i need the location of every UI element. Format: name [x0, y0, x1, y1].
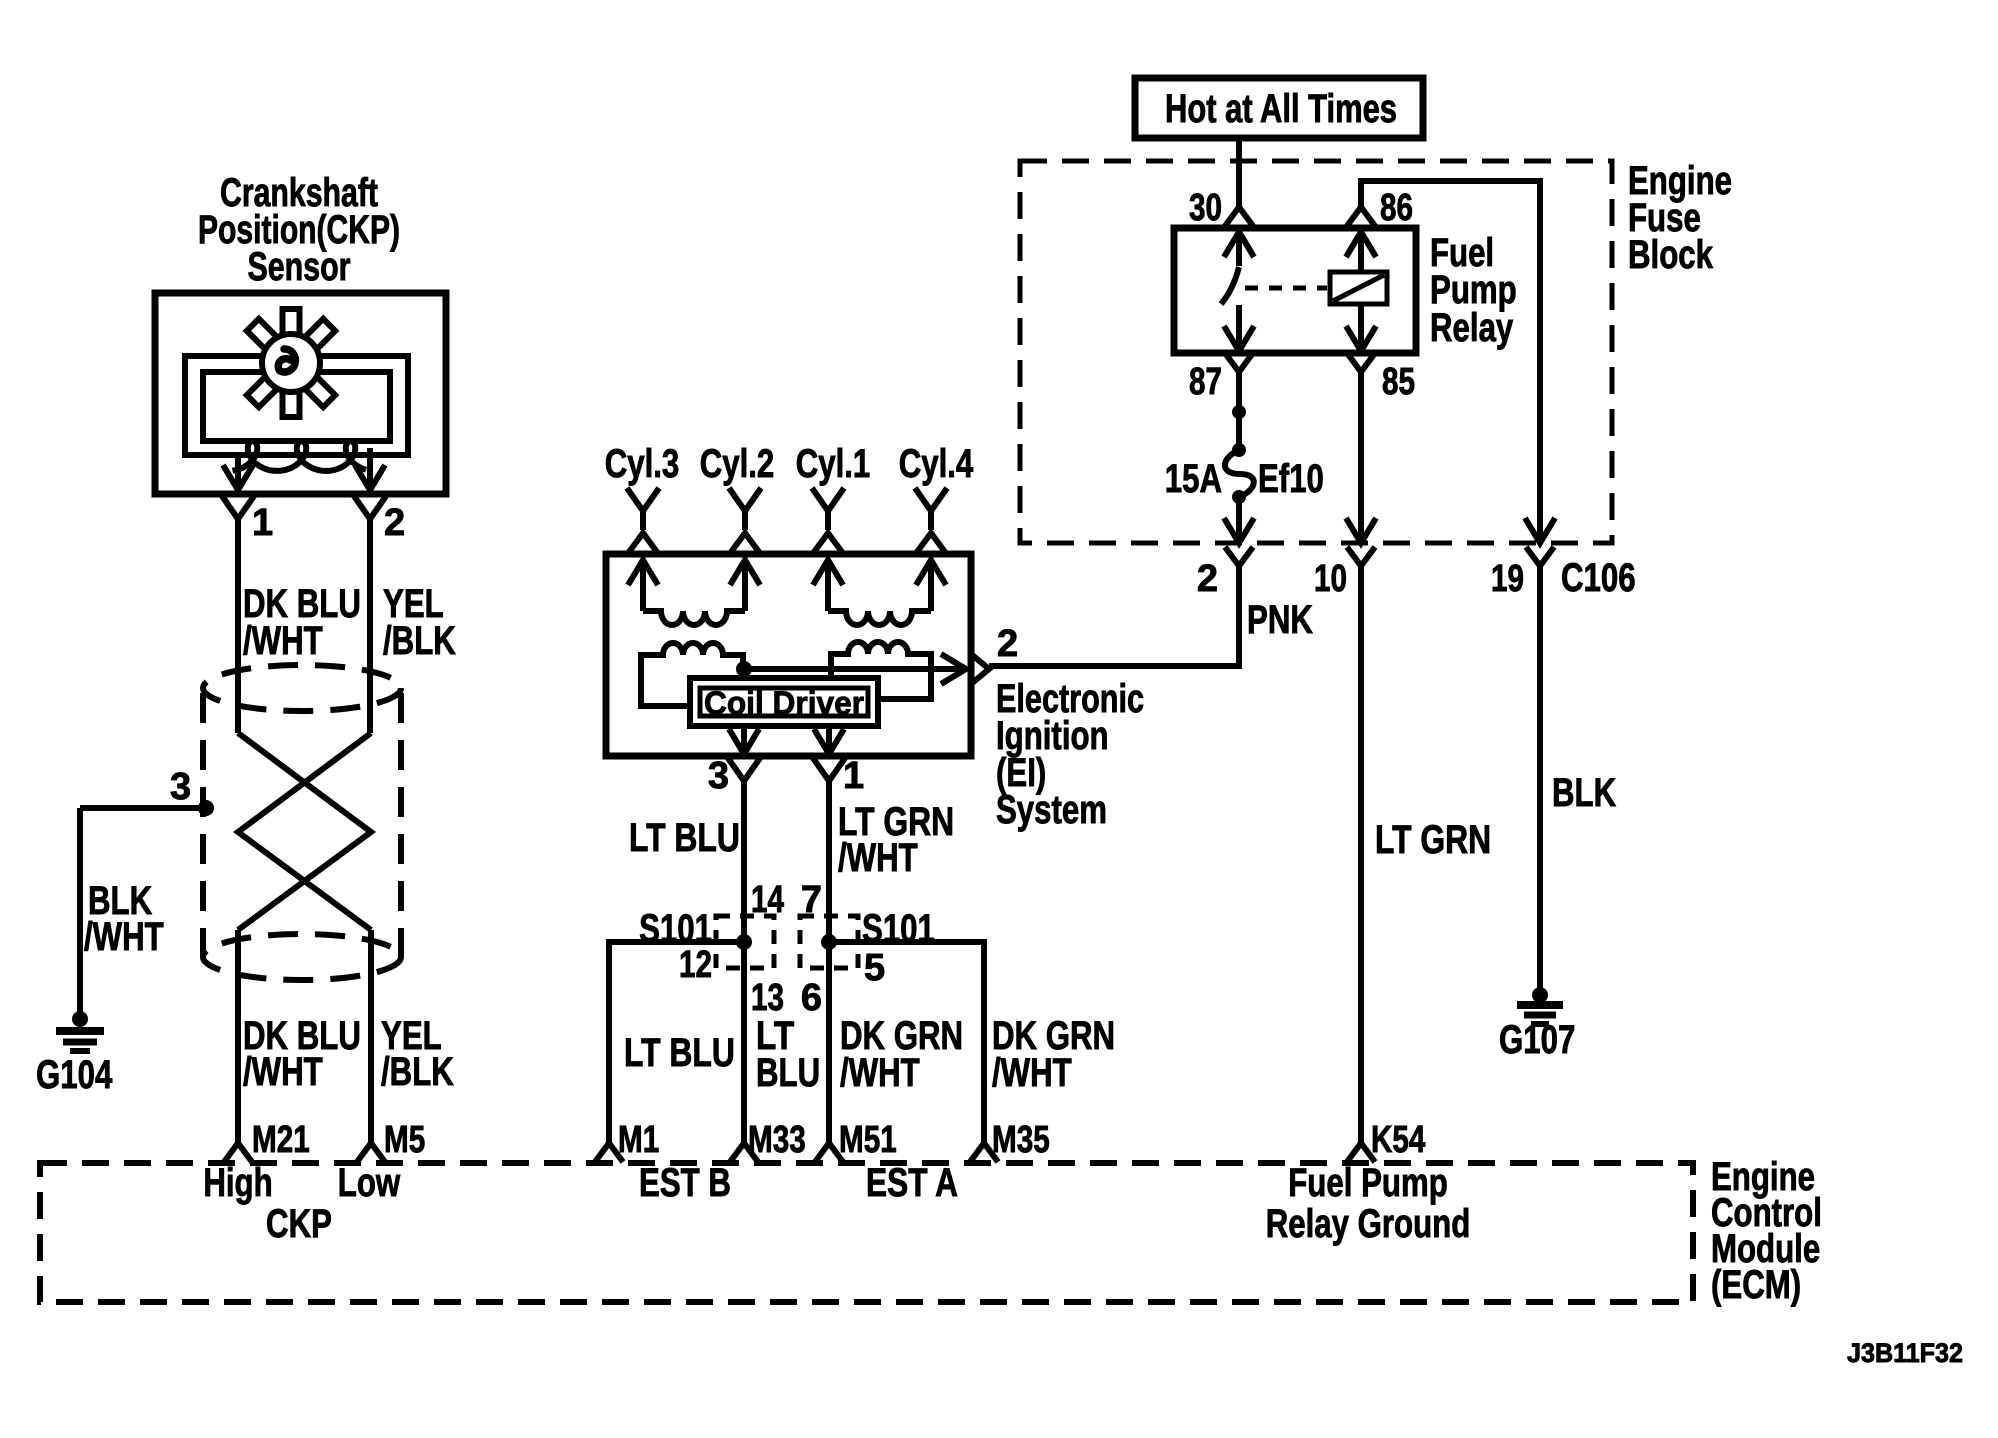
ECM pin K54 — [1347, 1119, 1425, 1162]
ECM pin M1 — [595, 1119, 659, 1162]
svg-text:CKP: CKP — [266, 1202, 332, 1246]
wire S101 to M33 — [741, 942, 747, 1144]
pin 1 connector — [222, 496, 273, 544]
Engine Fuse Block dashed box — [1020, 161, 1612, 543]
svg-text:85: 85 — [1382, 361, 1415, 403]
shield cylinder bottom ellipse — [203, 934, 401, 980]
label LT BLU upper — [629, 816, 740, 860]
svg-text:M21: M21 — [252, 1119, 310, 1161]
label DK BLU/WHT upper — [243, 582, 361, 663]
svg-text:87: 87 — [1189, 361, 1222, 403]
svg-text:12: 12 — [679, 944, 712, 986]
svg-text:19: 19 — [1491, 558, 1524, 600]
label Cyl.4 — [899, 442, 974, 486]
wire LT GRN/WHT (1 to S101) — [826, 780, 832, 942]
svg-text:Cyl.2: Cyl.2 — [700, 442, 775, 486]
wire sensor pin1 internal — [223, 452, 253, 490]
svg-text:High: High — [203, 1161, 272, 1205]
wire S101 to M51 — [826, 942, 832, 1144]
svg-text:M1: M1 — [618, 1119, 659, 1161]
wire S101 to M1 branch — [609, 942, 744, 1144]
wire sensor pin2 internal — [355, 448, 385, 490]
label Fuel Pump Relay — [1430, 231, 1517, 350]
pin 2 connector — [354, 496, 405, 544]
svg-text:Cyl.4: Cyl.4 — [899, 442, 974, 486]
coil driver U2 box — [690, 678, 878, 726]
connector C106 pin 10 — [1314, 547, 1375, 600]
shield cylinder right wall — [398, 693, 404, 957]
svg-text:Cyl.1: Cyl.1 — [796, 442, 871, 486]
connector Cyl.1 spark plug lead — [812, 488, 844, 552]
svg-text:Coil Driver: Coil Driver — [704, 685, 864, 721]
svg-text:6: 6 — [801, 977, 822, 1019]
sensor CKP label — [198, 171, 400, 289]
pin 86 connector — [1347, 187, 1413, 229]
ECM pin M51 — [815, 1119, 897, 1162]
pin 85 connector — [1347, 353, 1415, 403]
relay actuation dashed link — [1245, 286, 1327, 291]
connector Cyl.3 spark plug lead — [627, 488, 659, 552]
coil T1 secondary (Cyl.3-Cyl.2) — [628, 560, 760, 625]
label S101 left — [639, 907, 712, 951]
svg-text:Hot at All Times: Hot at All Times — [1165, 87, 1397, 131]
svg-text:Sensor: Sensor — [248, 245, 351, 289]
label EST B — [639, 1161, 731, 1205]
pin 6 label — [801, 977, 822, 1019]
svg-text:Low: Low — [338, 1161, 401, 1205]
connector C106 pin 2 — [1197, 547, 1253, 600]
label LT BLU lower — [624, 1031, 735, 1075]
svg-text:G104: G104 — [36, 1053, 113, 1097]
label S101 right — [862, 907, 935, 951]
wire DK BLU/WHT lower to M21 — [235, 930, 241, 1144]
connector Cyl.2 spark plug lead — [729, 488, 761, 552]
label CKP — [266, 1202, 332, 1246]
label DK GRN/WHT left — [840, 1014, 963, 1095]
svg-text:EST B: EST B — [639, 1161, 731, 1205]
svg-text:M35: M35 — [992, 1119, 1050, 1161]
ground G107 — [1499, 987, 1575, 1062]
wire 85 to C106 pin 10 — [1346, 372, 1376, 543]
label Engine Control Module (ECM) — [1711, 1155, 1822, 1307]
svg-text:C106: C106 — [1561, 556, 1636, 600]
wire PNK net — [989, 566, 1239, 666]
svg-text:Cyl.3: Cyl.3 — [605, 442, 680, 486]
wire EST B driver output — [729, 726, 759, 754]
svg-text:/WHT: /WHT — [838, 836, 918, 880]
ECM pin M35 — [970, 1119, 1050, 1162]
svg-text:BLU: BLU — [756, 1051, 820, 1095]
label YEL/BLK upper — [383, 582, 456, 663]
wire battery feed to pin 30 — [1236, 138, 1242, 206]
svg-text:Relay: Relay — [1430, 306, 1514, 350]
label High — [203, 1161, 272, 1205]
wire YEL/BLK lower to M5 — [368, 930, 374, 1144]
svg-text:15A: 15A — [1165, 457, 1222, 501]
pin 12 label — [679, 944, 712, 986]
svg-text:/WHT: /WHT — [243, 1050, 323, 1094]
svg-text:5: 5 — [864, 947, 885, 989]
label Electronic Ignition (EI) System — [996, 677, 1144, 832]
wire 19 arrow at fuse block edge — [1525, 518, 1555, 543]
sensor U1 Crankshaft Position Sensor box — [155, 293, 446, 494]
svg-text:30: 30 — [1189, 187, 1222, 229]
label BLK — [1552, 771, 1616, 815]
splice S101 right box — [800, 916, 858, 968]
sensor coil inner housing — [185, 356, 408, 455]
svg-text:14: 14 — [751, 879, 784, 921]
label Fuel Pump Relay Ground — [1266, 1161, 1471, 1246]
svg-text:M5: M5 — [384, 1119, 425, 1161]
svg-text:/WHT: /WHT — [243, 619, 323, 663]
pin 14 label — [751, 879, 784, 921]
wire fuse to C106 pin 2 — [1224, 497, 1254, 543]
splice S101 left box — [716, 916, 774, 968]
pin 7 label — [801, 879, 822, 921]
svg-text:J3B11F32: J3B11F32 — [1847, 1338, 1963, 1368]
ECM Engine Control Module dashed box — [40, 1163, 1693, 1302]
svg-text:/BLK: /BLK — [383, 619, 456, 663]
svg-text:K54: K54 — [1371, 1119, 1425, 1161]
connector Cyl.4 spark plug lead — [915, 488, 947, 552]
svg-text:2: 2 — [1197, 558, 1218, 600]
svg-text:/WHT: /WHT — [84, 915, 164, 959]
label BLK/WHT — [84, 879, 164, 959]
wire S101 to M35 branch — [829, 942, 984, 1144]
label Cyl.1 — [796, 442, 871, 486]
svg-text:/WHT: /WHT — [992, 1051, 1072, 1095]
svg-text:2: 2 — [384, 502, 405, 544]
svg-text:BLK: BLK — [1552, 771, 1616, 815]
label PNK — [1247, 598, 1313, 642]
svg-text:EST A: EST A — [866, 1161, 958, 1205]
node S101 right junction — [821, 934, 837, 950]
fuse F1 15A Ef10 — [1165, 450, 1324, 504]
label LT BLU middle — [756, 1014, 820, 1095]
wire EST A driver output — [814, 726, 844, 754]
svg-text:PNK: PNK — [1247, 598, 1313, 642]
svg-text:13: 13 — [751, 977, 784, 1019]
sensor pickup coil winding — [233, 441, 367, 471]
label Cyl.3 — [605, 442, 680, 486]
svg-text:/BLK: /BLK — [381, 1050, 454, 1094]
svg-text:3: 3 — [708, 755, 729, 797]
wire 87 to fuse — [1232, 372, 1246, 457]
Hot at All Times box — [1135, 78, 1423, 138]
ECM pin M21 — [224, 1119, 310, 1162]
wire YEL/BLK upper (pin2 to twisted pair) — [367, 519, 373, 733]
svg-text:7: 7 — [801, 879, 822, 921]
label LT GRN — [1375, 818, 1491, 862]
wire BLK/WHT to ground — [77, 808, 83, 1014]
relay switch to pin 87 — [1224, 305, 1254, 351]
wire 86 to C106 pin19 net — [1361, 181, 1540, 522]
pin 3 connector EST B — [708, 755, 760, 797]
relay switch contact 30 — [1221, 232, 1254, 304]
figure id J3B11F32 — [1847, 1338, 1963, 1368]
EI ignition coil module box — [606, 554, 971, 756]
label DK GRN/WHT right — [992, 1014, 1115, 1095]
svg-text:G107: G107 — [1499, 1018, 1575, 1062]
node 3 shield drain junction — [80, 766, 214, 816]
label Low — [338, 1161, 401, 1205]
pin 2 EI output connector — [971, 623, 1018, 684]
relay K1 Fuel Pump Relay box — [1174, 228, 1416, 353]
wire LT GRN net (10 to K54) — [1358, 566, 1364, 1144]
ground G104 — [36, 1011, 113, 1097]
wire BLK net (19 to G107) — [1537, 566, 1543, 990]
pin 1 connector EST A — [813, 755, 864, 797]
label DK BLU/WHT lower — [243, 1014, 361, 1094]
ECM pin M33 — [730, 1119, 806, 1162]
coil T1 primary winding — [641, 643, 743, 706]
svg-text:LT BLU: LT BLU — [629, 816, 740, 860]
label YEL/BLK lower — [381, 1014, 454, 1094]
pin 13 label — [751, 977, 784, 1019]
svg-text:Ef10: Ef10 — [1258, 457, 1324, 501]
svg-text:M33: M33 — [748, 1119, 806, 1161]
svg-text:Fuel Pump: Fuel Pump — [1288, 1161, 1448, 1205]
svg-text:LT BLU: LT BLU — [624, 1031, 735, 1075]
sensor reluctor gear — [247, 309, 335, 417]
twisted pair crossing wires — [238, 733, 371, 930]
label EST A — [866, 1161, 958, 1205]
ECM pin M5 — [357, 1119, 425, 1162]
svg-text:86: 86 — [1380, 187, 1413, 229]
shield cylinder left wall — [200, 693, 206, 957]
svg-text:System: System — [996, 788, 1107, 832]
svg-text:1: 1 — [843, 755, 864, 797]
pin 87 connector — [1189, 353, 1253, 403]
svg-text:Block: Block — [1628, 233, 1714, 277]
coil T2 primary winding — [831, 642, 931, 699]
node coil output junction — [736, 661, 752, 677]
svg-text:3: 3 — [170, 766, 191, 808]
label Engine Fuse Block — [1628, 159, 1732, 277]
svg-text:LT GRN: LT GRN — [1375, 818, 1491, 862]
shield cylinder top ellipse — [203, 665, 401, 711]
relay coil wire 86 side — [1346, 232, 1376, 351]
svg-text:2: 2 — [997, 623, 1018, 665]
wire DK BLU/WHT upper (pin1 to twisted pair) — [235, 519, 241, 733]
node S101 left junction — [736, 934, 752, 950]
svg-text:/WHT: /WHT — [840, 1051, 920, 1095]
svg-text:1: 1 — [252, 502, 273, 544]
coil T2 secondary (Cyl.1-Cyl.4) — [813, 560, 946, 625]
label Cyl.2 — [700, 442, 775, 486]
svg-text:10: 10 — [1314, 558, 1347, 600]
svg-text:(ECM): (ECM) — [1711, 1263, 1801, 1307]
svg-text:Relay Ground: Relay Ground — [1266, 1202, 1471, 1246]
connector C106 pin 19 — [1491, 547, 1636, 600]
svg-text:M51: M51 — [839, 1119, 897, 1161]
pin 30 connector — [1189, 187, 1253, 229]
pin 5 label — [864, 947, 885, 989]
label LT GRN/WHT — [838, 800, 954, 880]
wire LT BLU (3 to S101) — [741, 780, 747, 942]
relay coil symbol — [1330, 272, 1387, 304]
wire coil output to EI box edge — [744, 654, 966, 684]
